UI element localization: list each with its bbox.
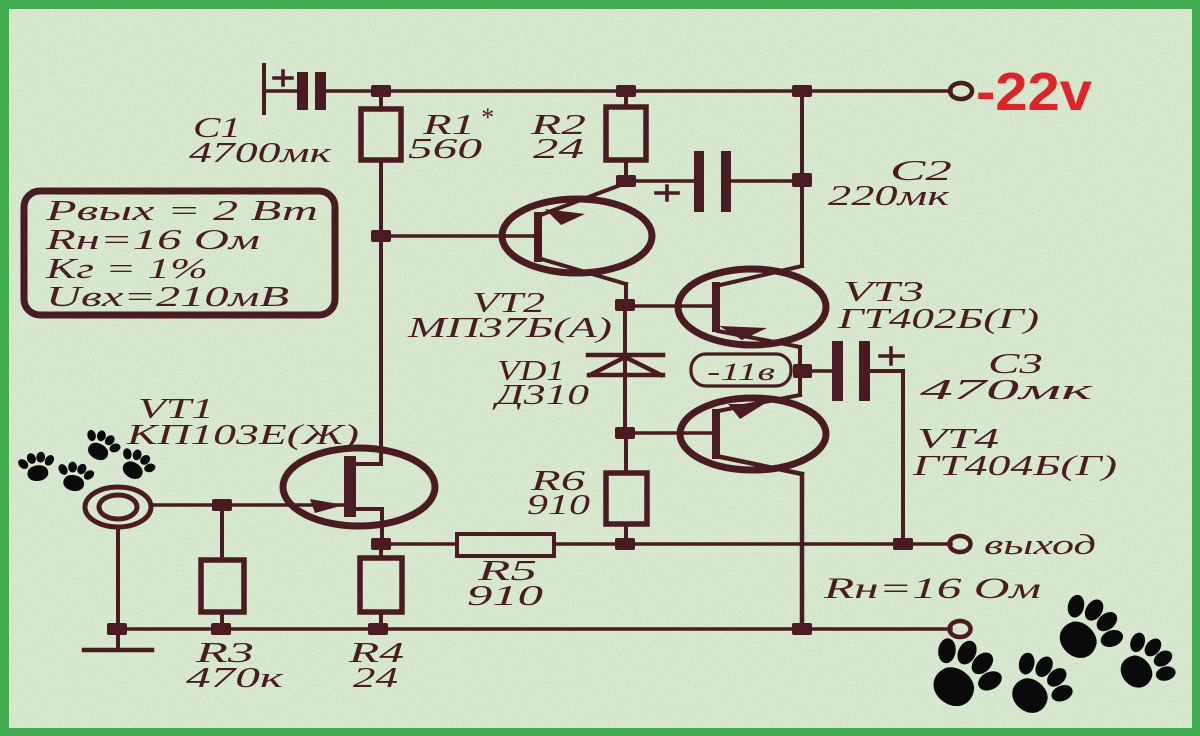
wire VT2 base bbox=[381, 234, 534, 237]
transistor VT4 bbox=[680, 371, 826, 629]
wire VD1 column top bbox=[623, 305, 627, 433]
paw prints left group bbox=[15, 423, 161, 495]
wire output line bbox=[382, 542, 951, 545]
wire bottom rail bbox=[117, 627, 951, 630]
resistor R2 bbox=[606, 91, 646, 181]
svg-text:МП37Б(А): МП37Б(А) bbox=[406, 313, 612, 344]
junction C3/output line bbox=[893, 538, 913, 550]
svg-text:Рвых = 2 Вт: Рвых = 2 Вт bbox=[44, 196, 318, 227]
junction VT1 source/R4/R5 bbox=[371, 538, 391, 550]
wire VT3 collector to rail bbox=[800, 91, 804, 266]
label -22v bbox=[976, 62, 1092, 122]
transistor VT3 bbox=[678, 266, 826, 371]
junction C2/collector column bbox=[792, 173, 812, 187]
svg-text:Rн=16 Ом: Rн=16 Ом bbox=[822, 572, 1041, 605]
svg-text:Rн=16 Ом: Rн=16 Ом bbox=[44, 225, 260, 256]
resistor R3 bbox=[201, 505, 244, 629]
junction rail/R1 bbox=[371, 85, 391, 97]
label R4 value bbox=[347, 638, 404, 694]
svg-text:910: 910 bbox=[527, 490, 590, 521]
svg-text:выход: выход bbox=[984, 529, 1096, 561]
transistor VT2 bbox=[502, 183, 652, 305]
label VT4 bbox=[911, 424, 1117, 482]
label R5 value bbox=[467, 556, 543, 612]
svg-text:24: 24 bbox=[533, 134, 584, 165]
terminal output bbox=[950, 536, 971, 552]
junction rail/VT3 collector bbox=[792, 85, 812, 97]
terminal bottom bbox=[950, 621, 971, 637]
svg-text:24: 24 bbox=[353, 663, 398, 694]
svg-text:ГТ402Б(Г): ГТ402Б(Г) bbox=[836, 304, 1039, 335]
svg-text:*: * bbox=[480, 103, 493, 132]
label R2 value bbox=[529, 110, 586, 165]
wire VT3 base bbox=[625, 304, 712, 307]
junction VT2 collector/VD1/VT3 base bbox=[615, 299, 635, 311]
wire jack to ground bbox=[116, 527, 120, 650]
transistor VT1 bbox=[283, 236, 435, 544]
wire top supply rail bbox=[325, 89, 951, 92]
wire VT1 gate bbox=[151, 503, 344, 506]
svg-text:220мк: 220мк bbox=[828, 181, 950, 212]
paw prints right group bbox=[911, 582, 1187, 731]
svg-text:-11в: -11в bbox=[707, 359, 775, 386]
resistor R6 bbox=[606, 433, 647, 544]
capacitor C2 bbox=[626, 151, 802, 212]
label R3 value bbox=[186, 638, 285, 694]
junction gate wire/R3 bbox=[212, 499, 232, 511]
junction VD1/R6/VT4 base bbox=[615, 427, 635, 439]
junction ground/R3 bbox=[211, 623, 231, 635]
resistor R1 bbox=[361, 91, 401, 236]
svg-text:910: 910 bbox=[467, 581, 543, 612]
svg-text:-22v: -22v bbox=[976, 62, 1092, 122]
diode VD1 bbox=[588, 355, 663, 375]
junction ground/VT4 collector bbox=[792, 623, 812, 635]
label VT3 bbox=[836, 277, 1039, 335]
svg-text:4700мк: 4700мк bbox=[189, 138, 332, 169]
svg-text:470мк: 470мк bbox=[920, 375, 1094, 406]
label VT1 bbox=[125, 394, 359, 451]
svg-text:560: 560 bbox=[408, 134, 482, 165]
label C1 value bbox=[189, 113, 332, 169]
label C2 value bbox=[828, 156, 952, 212]
junction R6/output line bbox=[615, 538, 635, 550]
svg-text:Кг = 1%: Кг = 1% bbox=[44, 254, 208, 285]
svg-text:Д310: Д310 bbox=[491, 380, 589, 411]
ground bbox=[84, 648, 152, 653]
label output bbox=[984, 529, 1096, 561]
junction rail/R2 bbox=[616, 85, 636, 97]
resistor R5 bbox=[457, 534, 554, 556]
label R1 value bbox=[408, 103, 493, 165]
junction R2/C2/VT2 emitter bbox=[616, 175, 636, 187]
terminal -22v bbox=[950, 83, 972, 99]
junction ground/jack bbox=[107, 623, 127, 635]
capacitor C1 bbox=[264, 65, 326, 113]
svg-text:КП103Е(Ж): КП103Е(Ж) bbox=[125, 420, 359, 451]
capacitor C3 bbox=[811, 341, 903, 544]
label VD1 value bbox=[491, 356, 589, 411]
svg-text:Uвх=210мВ: Uвх=210мВ bbox=[46, 282, 289, 313]
input jack bbox=[85, 487, 151, 527]
spec box bbox=[24, 191, 335, 315]
junction ground/R4 bbox=[368, 623, 388, 635]
label R6 value bbox=[527, 466, 590, 521]
svg-text:470к: 470к bbox=[186, 663, 285, 694]
label VT2 bbox=[406, 288, 612, 344]
junction emitters/C3 node -11v bbox=[793, 364, 812, 378]
wire VT4 base bbox=[625, 431, 712, 434]
resistor R4 bbox=[360, 544, 402, 629]
node -11v ellipse bbox=[691, 354, 791, 386]
label C3 value bbox=[920, 349, 1094, 406]
junction R1/VT2 base/VT1 drain bbox=[371, 230, 391, 242]
label Rn load bbox=[822, 572, 1041, 605]
svg-text:ГТ404Б(Г): ГТ404Б(Г) bbox=[911, 451, 1117, 482]
